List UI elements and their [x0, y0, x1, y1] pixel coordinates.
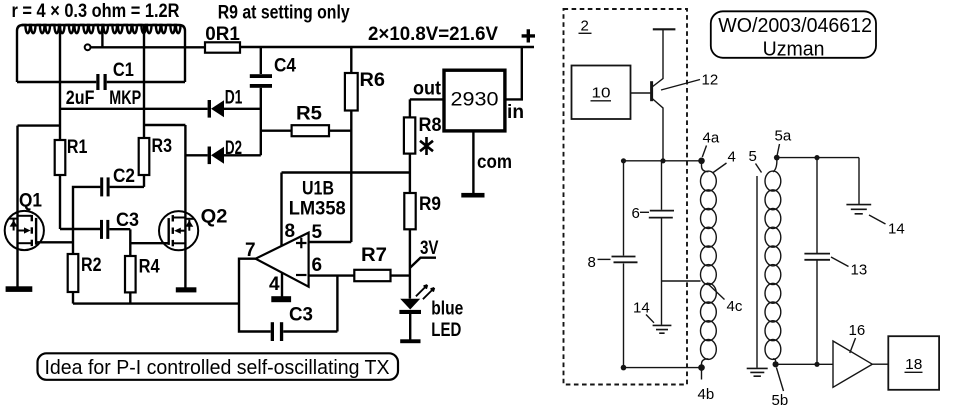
node line top primary	[624, 160, 702, 162]
wire amp out	[872, 363, 888, 365]
wire pin6 feedback drop	[336, 276, 338, 332]
svg-text:2uF: 2uF	[66, 88, 95, 109]
transistor Q2	[159, 211, 198, 250]
capacitor 8 plates	[612, 257, 638, 263]
wire 2930 com stem	[472, 131, 474, 193]
svg-text:Idea for P-I controlled self-o: Idea for P-I controlled self-oscillating…	[45, 357, 390, 379]
LEFT-SCHEMATIC-TEXT	[12, 1, 525, 341]
wire C3fb to pin6 drop	[283, 330, 337, 332]
svg-text:R8: R8	[419, 115, 442, 136]
svg-text:7: 7	[245, 240, 256, 261]
coil 4	[702, 161, 709, 172]
wire pin7 loop to C3fb	[239, 259, 271, 332]
PATENT-FIGURE	[564, 9, 940, 391]
wire Q2 gate	[130, 242, 168, 244]
leader 12	[661, 80, 700, 91]
svg-text:R9: R9	[419, 194, 441, 215]
svg-text:R3: R3	[152, 136, 173, 157]
capacitor C3 plates	[100, 220, 103, 239]
wire ground 14 right stem	[858, 158, 860, 204]
svg-text:5b: 5b	[772, 392, 789, 409]
capacitor C3fb plates	[271, 322, 274, 341]
leader 4	[713, 163, 727, 173]
antenna bar	[653, 28, 676, 30]
svg-text:6: 6	[632, 205, 640, 222]
LED light arrows	[416, 285, 434, 299]
leader 5a	[777, 144, 779, 155]
leader 14 left	[646, 315, 654, 323]
leader 5b	[776, 368, 783, 392]
svg-text:12: 12	[702, 72, 719, 89]
svg-text:2×10.8V=21.6V: 2×10.8V=21.6V	[368, 24, 498, 45]
svg-text:14: 14	[633, 300, 650, 317]
svg-text:r = 4 × 0.3 ohm = 1.2R: r = 4 × 0.3 ohm = 1.2R	[12, 1, 180, 22]
wire Q2 drain-source column	[184, 125, 186, 288]
wire C2 row left with drop to R2	[73, 187, 100, 254]
diode D1	[208, 100, 211, 118]
svg-text:Uzman: Uzman	[763, 38, 825, 60]
ground shield	[747, 368, 768, 376]
svg-text:Q2: Q2	[201, 207, 228, 228]
resistor R3	[139, 138, 150, 175]
wire R1 column	[59, 25, 61, 229]
svg-text:R2: R2	[81, 255, 102, 276]
capacitor 6 plates	[649, 211, 674, 218]
svg-text:4b: 4b	[698, 386, 715, 403]
svg-text:13: 13	[851, 261, 868, 278]
svg-text:4: 4	[269, 274, 280, 295]
svg-text:C2: C2	[113, 166, 135, 187]
regulator 2930 box	[444, 70, 505, 131]
plus sign power	[522, 29, 535, 42]
transistor Q1	[5, 211, 44, 250]
diode D2	[208, 147, 211, 165]
ground LED	[400, 339, 420, 343]
op-amp plus input sign	[296, 238, 307, 249]
block 10 box	[572, 66, 631, 120]
svg-text:0R1: 0R1	[205, 24, 240, 45]
PATENT-TEXT	[581, 18, 923, 409]
amplifier 16	[833, 341, 872, 387]
transistor 12 collector	[651, 30, 663, 88]
resistor R7	[354, 270, 390, 281]
wire C2 row right	[110, 186, 144, 188]
wire Q1 drain-source column	[16, 126, 18, 287]
svg-text:2930: 2930	[451, 89, 499, 111]
svg-text:R5: R5	[296, 104, 322, 125]
wire C4 to diode junction	[260, 88, 262, 156]
coil 5	[773, 158, 777, 172]
svg-text:U1B: U1B	[302, 179, 334, 200]
svg-text:5a: 5a	[775, 128, 792, 145]
leader 14 right	[869, 215, 886, 224]
block 18 box	[888, 336, 939, 390]
wire R5 row	[261, 129, 352, 131]
svg-text:LED: LED	[431, 320, 461, 341]
wire cross line pin8 to R8 node	[282, 171, 410, 173]
svg-text:10: 10	[592, 85, 611, 102]
resistor R9b	[404, 193, 415, 229]
wire R6 column (rail to pin5)	[350, 47, 352, 242]
wire tap 4c	[662, 280, 701, 282]
wire bottom rail R2 R4 to pin7 loop	[73, 302, 239, 304]
wire 2930 in riser	[505, 47, 522, 99]
resistor 0R1	[205, 42, 240, 52]
node tap terminal circle	[85, 44, 91, 50]
patent title box	[711, 11, 876, 58]
svg-text:4: 4	[728, 149, 736, 166]
capacitor C4 plates	[250, 74, 272, 78]
wire 3V tap mark	[410, 258, 436, 268]
wire R2 lead to rail	[72, 292, 74, 304]
wire coil bottom left to C1	[17, 81, 96, 83]
wire power rail 0R1 to plus	[240, 46, 534, 48]
svg-text:C3: C3	[289, 305, 313, 326]
svg-text:C3: C3	[116, 210, 139, 231]
node line top secondary	[777, 157, 859, 159]
leader 6	[640, 211, 649, 213]
svg-text:6: 6	[312, 255, 323, 276]
svg-text:com: com	[477, 152, 512, 173]
node line bottom primary	[624, 367, 702, 369]
wire C3 row left	[60, 228, 100, 230]
wire pin6 to R7 to LED node	[309, 274, 411, 276]
op-amp minus input sign	[296, 274, 307, 276]
transistor 12 emitter	[652, 98, 663, 161]
svg-text:5: 5	[749, 148, 757, 165]
svg-text:R1: R1	[67, 137, 88, 158]
ground 14 right	[846, 205, 871, 214]
svg-text:Q1: Q1	[19, 191, 42, 212]
node line bottom secondary	[776, 363, 833, 365]
wire C6 column lower	[661, 218, 663, 281]
svg-text:out: out	[413, 79, 442, 100]
ground 2930 com	[461, 193, 484, 198]
wire tap to 0R1	[91, 46, 206, 48]
svg-text:8: 8	[285, 221, 296, 242]
resistor R2	[68, 254, 79, 292]
wire C13 column	[816, 158, 818, 365]
wire right branch horizontal	[144, 124, 185, 126]
wire pin4 ground stem	[281, 272, 283, 297]
wire to ground 14 left	[661, 281, 663, 325]
inductor L1 body (tapped coil)	[17, 25, 185, 82]
resistor R5	[292, 125, 329, 136]
svg-text:LM358: LM358	[289, 199, 346, 220]
wire pin8 drop	[280, 173, 282, 247]
ground Q2	[176, 287, 197, 292]
wire coil tap vertical	[101, 29, 103, 47]
svg-text:in: in	[507, 102, 524, 123]
svg-text:WO/2003/046612: WO/2003/046612	[718, 15, 872, 37]
LEFT-SCHEMATIC-WIRES	[17, 25, 534, 340]
svg-text:C4: C4	[274, 56, 296, 77]
wire left branch horizontal	[18, 124, 61, 126]
svg-text:MKP: MKP	[109, 88, 141, 109]
capacitor C1 plates	[96, 74, 99, 90]
transistor 12 base bar	[650, 81, 653, 101]
op-amp U1B triangle	[256, 233, 309, 287]
asterisk R8	[420, 137, 433, 155]
wire D2 row	[185, 154, 260, 156]
resistor R4	[125, 256, 136, 292]
ground pin4	[271, 296, 291, 302]
wire R3 column	[143, 25, 145, 187]
junction dots patent	[621, 155, 820, 371]
leader 16	[850, 338, 856, 353]
leader 13	[831, 257, 849, 267]
idea caption rounded box	[38, 353, 399, 380]
svg-text:blue: blue	[431, 299, 463, 320]
wire C3 row right	[109, 228, 130, 230]
underline 2	[579, 32, 592, 34]
svg-text:R6: R6	[360, 70, 386, 91]
svg-text:5: 5	[312, 222, 323, 243]
wire rail to C4	[260, 47, 262, 74]
transistor 12 base wire	[631, 92, 652, 94]
svg-text:R4: R4	[139, 257, 160, 278]
LED D3 body	[400, 299, 420, 310]
ground 14 left	[653, 325, 672, 333]
svg-text:R7: R7	[361, 245, 387, 266]
svg-text:8: 8	[588, 254, 596, 271]
svg-text:C1: C1	[113, 60, 134, 81]
leader 4a	[702, 146, 706, 158]
svg-text:18: 18	[905, 356, 922, 373]
wire C1 to coil bottom right	[107, 81, 185, 83]
capacitor 13 plates	[804, 254, 830, 260]
svg-text:D2: D2	[225, 138, 242, 159]
wire LED column	[409, 99, 411, 298]
wire left column with C8	[623, 161, 625, 368]
wire pin5	[309, 241, 352, 243]
svg-text:16: 16	[849, 322, 866, 339]
svg-text:D1: D1	[225, 88, 243, 109]
wire C6 column upper	[661, 161, 663, 210]
svg-text:4a: 4a	[703, 130, 720, 147]
svg-text:14: 14	[888, 220, 905, 237]
underline 10	[591, 100, 612, 102]
wire Q1 gate	[36, 241, 73, 243]
svg-text:2: 2	[581, 18, 589, 35]
wire D1 row	[60, 108, 261, 110]
resistor R6	[345, 73, 358, 111]
svg-text:4c: 4c	[727, 298, 743, 315]
svg-text:R9 at setting only: R9 at setting only	[218, 3, 350, 24]
leader 4c	[707, 283, 725, 300]
underline 18	[905, 371, 923, 373]
leader 8	[598, 258, 611, 260]
resistor R8	[404, 117, 415, 153]
capacitor C2 plates	[100, 177, 103, 196]
wire R4 column	[129, 229, 131, 303]
ground Q1	[6, 286, 33, 292]
LEFT-SCHEMATIC-COMPONENTS	[55, 42, 416, 292]
dashed enclosure 2	[564, 9, 688, 385]
leader 5	[756, 164, 762, 173]
wire LED cathode to ground	[409, 313, 411, 340]
shield line	[756, 176, 758, 368]
inductor L1 loops	[22, 25, 181, 33]
svg-text:3V: 3V	[420, 238, 439, 259]
resistor R1	[55, 140, 66, 175]
wire 2930 out	[410, 98, 444, 100]
